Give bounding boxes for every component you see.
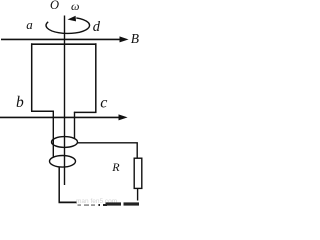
svg-text:O: O <box>50 0 59 12</box>
coil abcd: left edge <box>31 43 33 111</box>
coil bottom-left edge <box>31 110 54 112</box>
coil bottom-right edge <box>74 111 97 113</box>
wire: resistor bottom down <box>137 188 139 200</box>
slip ring 1 (upper) <box>52 137 78 148</box>
svg-text:b: b <box>16 94 24 111</box>
resistor R <box>134 158 142 188</box>
coil right lead down to upper slip ring <box>74 112 76 139</box>
shaft / rotation axis OO' <box>64 16 66 186</box>
field line B (bottom), arrow <box>0 116 120 118</box>
slip ring 2 (lower) <box>50 156 76 168</box>
svg-text:c: c <box>100 95 107 112</box>
wire: bottom horizontal <box>59 201 78 203</box>
cut-off text row at bottom edge <box>78 202 140 206</box>
svg-text:R: R <box>111 160 120 174</box>
coil left lead down to lower slip ring <box>52 111 54 158</box>
rotation arrow arc <box>46 18 90 34</box>
rotation arrowhead <box>68 16 77 22</box>
svg-text:a: a <box>26 17 33 32</box>
svg-text:d: d <box>93 19 101 35</box>
field line B (top), arrow <box>1 38 121 40</box>
svg-text:ω: ω <box>71 0 79 13</box>
wire: lower slip ring down to bottom wire <box>58 167 60 202</box>
coil right edge <box>95 43 97 113</box>
svg-text:B: B <box>131 31 139 46</box>
coil top edge <box>31 43 97 45</box>
wire: upper slip ring to resistor top <box>78 143 138 158</box>
